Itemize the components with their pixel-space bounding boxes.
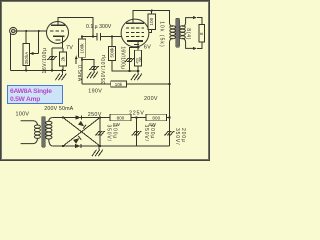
triode cathode	[53, 35, 65, 37]
PT core	[42, 117, 46, 148]
resistor R1 100k triode plate load	[78, 35, 85, 84]
svg-text:190V: 190V	[88, 88, 102, 94]
triode plate lead	[58, 17, 93, 36]
title box	[8, 86, 63, 104]
wire cathode node	[52, 47, 63, 49]
svg-text:800: 800	[117, 116, 125, 121]
svg-text:6V: 6V	[144, 44, 151, 50]
OPT secondary winding	[180, 26, 186, 29]
svg-text:800: 800	[152, 116, 160, 121]
svg-text:350V/100µ: 350V/100µ	[101, 54, 107, 84]
border frame	[1, 1, 210, 161]
node bridge corners	[62, 116, 64, 118]
pentode cathode lead	[137, 41, 139, 47]
svg-text:2k: 2k	[60, 56, 65, 62]
node 2k bottom / ground	[61, 69, 63, 71]
pentode heater mark	[134, 44, 139, 46]
OPT secondary bottom lead	[182, 38, 193, 48]
triode grid (dashed)	[50, 30, 65, 32]
triode V1a envelope	[47, 22, 69, 44]
svg-text:0.5W Amp: 0.5W Amp	[10, 96, 40, 103]
PT primary winding	[34, 125, 40, 128]
wire R7b to 200V node	[167, 117, 170, 119]
svg-text:10k: 10k	[115, 82, 123, 87]
wire jack sleeve to ground rail	[10, 34, 12, 71]
svg-text:350V/: 350V/	[143, 125, 149, 142]
wire cathode ground bar	[112, 70, 138, 72]
ground symbol pentode cathode	[131, 71, 142, 80]
svg-text:6AW8A Single: 6AW8A Single	[10, 88, 52, 95]
node wiper junction	[38, 30, 40, 32]
power transformer T1	[16, 106, 74, 147]
resistor R8 8 ohm load	[197, 18, 205, 49]
capacitor C3 350V/100u decoupling at 190V	[81, 58, 99, 78]
resistor R7a 800 5W	[110, 114, 131, 127]
wire coupling cap to pentode grid	[100, 36, 121, 38]
capacitor C4 16V/100u pentode cathode bypass	[124, 47, 138, 72]
svg-text:225V: 225V	[129, 110, 145, 116]
svg-text:8(4): 8(4)	[185, 28, 191, 40]
wire 190V rail to 200V riser	[126, 83, 169, 85]
wire PSU bottom rail	[52, 145, 169, 147]
svg-text:350V/: 350V/	[174, 128, 180, 145]
svg-text:2W: 2W	[138, 56, 142, 62]
pentode plate lead to OPT	[133, 11, 170, 24]
potentiometer VR1 350kA	[23, 31, 29, 70]
pentode plate	[126, 22, 144, 24]
svg-text:7V: 7V	[66, 45, 73, 51]
node 200V riser junction	[168, 83, 170, 85]
svg-text:200V: 200V	[144, 96, 158, 102]
pentode g2 screen	[126, 31, 144, 33]
svg-text:500k: 500k	[109, 47, 114, 58]
svg-text:8: 8	[199, 32, 204, 35]
node cap bottom	[51, 69, 53, 71]
pentode g3	[126, 27, 144, 29]
wire jack hot to triode grid	[15, 30, 47, 32]
PT primary lead bottom	[21, 138, 38, 144]
OPT core	[176, 18, 180, 47]
diode D3 ascending diagonal	[73, 136, 81, 144]
svg-text:350V/: 350V/	[105, 125, 111, 142]
input jack J1	[10, 27, 17, 34]
wire 190V rail	[82, 83, 111, 85]
svg-text:200V 50mA: 200V 50mA	[44, 106, 73, 112]
pentode V1b envelope	[121, 19, 149, 47]
capacitor C6 350V/200u	[131, 118, 154, 147]
svg-text:5W: 5W	[113, 122, 121, 127]
PT secondary winding	[49, 118, 53, 122]
wire PSU top rail	[52, 117, 110, 119]
output transformer T2	[159, 11, 197, 118]
node 200V	[168, 116, 170, 118]
resistor R4 100 screen stopper	[148, 9, 155, 29]
screen lead to 100 ohm	[149, 29, 152, 32]
node 225V	[135, 116, 137, 118]
svg-text:10k (5k): 10k (5k)	[159, 21, 165, 47]
svg-text:16V/100µ: 16V/100µ	[42, 48, 48, 74]
pentode cathode	[127, 40, 143, 42]
PT primary lead top	[21, 121, 38, 126]
svg-text:200µ: 200µ	[180, 128, 186, 143]
triode cathode lead	[61, 36, 63, 48]
capacitor C7 350V/200u	[164, 118, 186, 147]
resistor R6 10k decoupling	[111, 81, 127, 87]
svg-text:250V: 250V	[88, 112, 102, 118]
triode plate	[51, 24, 65, 26]
OPT secondary top lead	[182, 18, 193, 27]
capacitor C5 350V/100u	[95, 118, 117, 147]
wire plate to coupling cap	[82, 36, 97, 38]
bridge rectifier diagonals	[63, 118, 100, 147]
diode D1 top	[76, 115, 82, 119]
capacitor C2 0.1u 300V coupling	[86, 24, 112, 40]
node plate-coupling junction	[92, 35, 94, 37]
resistor R2 2k triode cathode	[60, 48, 67, 70]
ground symbol PSU	[92, 146, 103, 156]
svg-text:16V/100µ: 16V/100µ	[119, 46, 125, 69]
resistor R5 450 2W pentode cathode	[135, 47, 143, 72]
node jack-pot junction	[25, 30, 27, 32]
svg-text:5W: 5W	[149, 122, 157, 127]
node pentode cathode	[137, 46, 139, 48]
svg-text:0.1 µ 300V: 0.1 µ 300V	[86, 24, 112, 30]
diode D2 descending diagonal	[78, 121, 86, 129]
current arrow 0.5mA	[75, 55, 82, 81]
svg-text:350kA: 350kA	[24, 52, 29, 65]
capacitor C1 16V/100u triode cathode bypass	[47, 48, 57, 70]
pentode g1	[126, 36, 144, 38]
node 500k junction	[111, 35, 113, 37]
wire ground rail input stage	[11, 69, 66, 71]
OPT primary winding	[170, 11, 173, 27]
node pot bottom	[25, 69, 27, 71]
svg-text:100V: 100V	[16, 111, 30, 117]
svg-text:100k: 100k	[80, 43, 85, 54]
diode D4 bottom	[75, 144, 81, 148]
triode heater mark	[56, 39, 61, 41]
resistor R3 500k pentode grid leak	[109, 37, 130, 71]
pot wiper arm	[30, 31, 39, 55]
svg-text:100: 100	[149, 17, 154, 25]
wire R7a to R7b	[131, 117, 146, 119]
resistor R7b 800 5W	[146, 114, 167, 127]
ground symbol input stage	[55, 70, 66, 80]
svg-text:0.5mA: 0.5mA	[76, 65, 82, 82]
